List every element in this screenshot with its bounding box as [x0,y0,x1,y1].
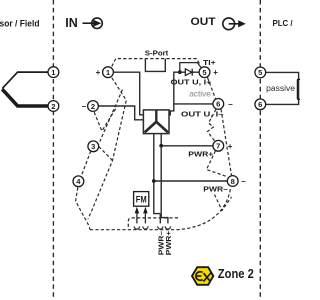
plug contact FM1 [134,226,139,229]
terminal 7 (device) [213,140,224,151]
svg-text:6: 6 [216,100,220,109]
wire diode branch from node to terminal5 [180,71,199,73]
terminal 2 (device) [88,101,99,112]
plug contact PWR+ [165,226,170,229]
svg-text:FM: FM [136,194,147,204]
svg-text:–: – [228,100,233,109]
dashed alt wiring 3 to bend [99,147,113,161]
wire output minus rail (node to terminal 6 and box) [174,72,213,104]
svg-text:–: – [241,177,246,186]
FM monitoring box [134,192,149,207]
terminal 5 (PLC side) [255,67,266,78]
wire PWR+ rail from box [161,134,213,146]
S-Port dashed line [112,59,201,67]
svg-text:PWR+: PWR+ [188,150,214,159]
converter box (isolating amplifier) [143,110,169,134]
svg-text:passive: passive [266,84,295,93]
icon IN (arrow into circle) [83,18,103,29]
svg-text:+: + [228,142,233,151]
svg-text:6: 6 [258,100,262,109]
converter symbol (inverted Y) [155,110,157,121]
svg-text:2: 2 [91,102,95,111]
svg-text:OUT: OUT [191,16,216,28]
dashed bottom rail to terminal 8 [90,189,231,230]
svg-text:PLC /: PLC / [273,19,294,28]
svg-text:+: + [96,68,101,77]
icon OUT (arrow out of circle) [223,18,246,30]
dashed alt wiring 4 down to bottom rail [76,188,90,230]
terminal 1 (field side) [48,67,59,78]
diode D1 [185,69,192,76]
wire PWR- rail from box [154,134,228,181]
svg-text:3: 3 [91,142,95,151]
dashed alt wiring 7 to 8 [207,151,228,177]
wire terminal1 to converter box [113,72,143,115]
dashed vee below terminal 8 [215,195,232,211]
svg-text:8: 8 [231,177,235,186]
junction node diode branch [178,70,182,74]
thermocouple sensor wire + (thin) [2,72,48,89]
terminal 4 (device) [73,176,84,187]
TI+ test tap wire [180,63,201,73]
svg-text:OUT U, I–: OUT U, I– [181,110,224,119]
junction node PWR- [152,179,156,183]
svg-text:+: + [213,68,218,77]
terminal 8 (device) [227,176,238,187]
terminal 2 (field side) [48,101,59,112]
S-Port box U1 [145,59,165,72]
zone divider left (Sensor/Field | IN) [52,0,54,300]
dashed alt wiring 1 down bend chain [88,78,126,219]
svg-text:sor / Field: sor / Field [0,18,40,28]
dashed alt wiring 5 to 6 [208,78,216,99]
zone divider right (OUT | PLC) [259,0,261,300]
svg-text:7: 7 [216,142,220,151]
svg-text:–: – [82,102,87,111]
terminal 1 (device) [103,67,114,78]
svg-text:Zone 2: Zone 2 [218,266,254,281]
dashed alt wiring 1 to 3 [100,90,123,142]
svg-text:PWR–: PWR– [203,185,228,194]
plug contact FM2 [143,226,148,229]
passive load resistor PLC input [297,79,302,99]
dashed alt wiring 6 to 8 [221,109,232,175]
terminal 5 (device) [199,67,210,78]
svg-text:IN: IN [65,16,78,30]
svg-text:PWR+: PWR+ [164,230,173,255]
svg-text:S-Port: S-Port [145,48,169,57]
plug contact PWR- [158,226,163,229]
thermocouple sensor wire - (thick) [2,89,48,106]
Ex hazardous area symbol [192,267,213,285]
wire terminal2 to converter box [98,106,143,120]
dashed alt wiring 2 zigzag [94,107,117,131]
dashed alt wiring 3 to 4 [81,151,91,176]
dashed alt wiring 6 to 7 zigzag [208,109,217,140]
terminal 3 (device) [88,141,99,152]
FM input line 2 with arrow [144,210,146,223]
svg-text:active: active [189,88,211,98]
svg-text:2: 2 [51,102,55,111]
svg-text:OUT U, I+: OUT U, I+ [171,77,212,86]
wire output rail into box right [169,104,174,115]
dashed mid rail [128,218,178,229]
terminal 6 (device) [213,99,224,110]
terminal 6 (PLC side) [255,99,266,110]
wire PWR+ down to plug [161,146,168,224]
wire PLC loop terminal 5 [266,72,299,104]
wire PWR- down to plug [154,181,161,223]
svg-text:TI+: TI+ [203,58,216,67]
junction node PWR+ [159,144,163,148]
FM input line 1 with arrow [136,210,138,223]
